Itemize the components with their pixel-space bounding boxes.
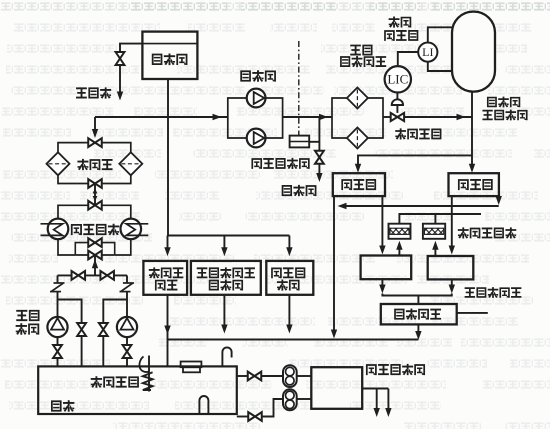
valve V7 (manifold left) bbox=[72, 271, 79, 280]
wire: filter to cooler connection, double arrows bbox=[94, 184, 96, 206]
wire: LIC stem to valve actuator dome bbox=[396, 93, 398, 100]
wire: purifier outlet drop 1 with arrow bbox=[376, 389, 378, 410]
booster pump parallel block frame bbox=[228, 98, 283, 117]
wire: cooler down to pump manifold with up arrow bbox=[94, 255, 96, 275]
label: stop tank bbox=[152, 54, 163, 65]
component: separation filter right (hatched) bbox=[423, 224, 445, 239]
heat exchanger E1 (left cooler circle) bbox=[48, 219, 69, 240]
wire: LIC to LI connection bbox=[398, 52, 418, 66]
box: oil seal left (you mifeng) bbox=[333, 173, 385, 196]
component: internal suction siphon bbox=[199, 396, 208, 414]
label: oil drain trap (paiyou bujiqi) bbox=[465, 287, 475, 298]
svg-text:LI: LI bbox=[422, 45, 433, 59]
oil cooler loop frame bbox=[58, 205, 95, 255]
wire: left oil seal to left trap with arrow bbox=[381, 196, 383, 247]
wire: LI to tank bottom tap bbox=[428, 62, 453, 71]
wire: right pump suction with valve V12 bbox=[126, 337, 128, 345]
wire: lube pump discharge manifold bbox=[58, 274, 128, 276]
label: lube oil pump (runhua youbeng), two lines bbox=[16, 310, 27, 321]
wire: dp valve to bypass drop line bbox=[309, 141, 319, 143]
actuator dome of level control valve bbox=[392, 99, 403, 105]
valve V13 (bypass to oil tank) bbox=[315, 151, 324, 158]
wire: left recirculation to tank bbox=[81, 336, 83, 366]
wire: left trap outlet down with arrow bbox=[381, 279, 383, 287]
instrument: LI level indicator circle bbox=[418, 43, 437, 62]
wire: degasser side outlet bbox=[457, 312, 488, 314]
wire: compressor bearing drain with arrow bbox=[288, 295, 290, 326]
component: heater element coil in tank bbox=[148, 356, 150, 392]
valve V9 (left recirculation) bbox=[77, 323, 86, 330]
wire: main line elbow down to filter block bbox=[94, 117, 96, 130]
label: level indication control, two lines bbox=[350, 45, 361, 56]
wire: right oil seal to oil return line (step) bbox=[498, 196, 500, 199]
wire: motor bearing drain through header into tank bbox=[167, 295, 169, 367]
box: oil seal right (you mifeng) bbox=[449, 173, 499, 196]
wire: bearing supply header from stop-tank line bbox=[168, 235, 290, 237]
box: oil drain trap left bbox=[361, 256, 412, 280]
check symbol Z1 on left pump riser bbox=[57, 275, 59, 283]
label: filter (guolvqi) bbox=[77, 159, 88, 170]
pump P5 (gear pump upper, two-lobe) bbox=[283, 365, 297, 387]
instrument: differential pressure control valve body bbox=[290, 136, 310, 148]
valve V5 (cooler bottom edge) bbox=[88, 251, 95, 260]
pump P6 (gear pump lower, two-lobe) bbox=[283, 389, 297, 410]
label: oil heater (you jiareqi) bbox=[91, 376, 102, 388]
filter element F1 (left diamond) bbox=[47, 152, 70, 175]
valve V3 (filter outlet, bottom edge) bbox=[88, 179, 95, 188]
box: gearbox bearings and gears bbox=[191, 261, 261, 295]
label: to-oil-tank (zhi you xiang) bbox=[76, 87, 87, 98]
valve V10 (right recirculation) bbox=[99, 323, 108, 330]
wire: tank outlet lower with valve V16 bbox=[237, 416, 249, 418]
box: oil drain trap right bbox=[428, 256, 474, 279]
filter loop (guolvqi) frame bbox=[58, 143, 131, 184]
label: booster pump (zengyabeng) bbox=[240, 70, 251, 81]
wire: right trap outlet down with arrow bbox=[451, 279, 453, 287]
valve V2 (filter inlet, top edge) bbox=[88, 138, 95, 147]
wire: left pump suction with valve V11 bbox=[57, 337, 59, 345]
wire: drop with arrow into gearbox box bbox=[223, 236, 225, 249]
pump P4 (booster pump bottom) bbox=[247, 129, 266, 148]
wire: gas vent header of separation filters bbox=[399, 214, 481, 224]
check symbol Z2 on right pump riser bbox=[126, 275, 128, 283]
arrow on main line before booster pumps bbox=[213, 114, 222, 120]
wire: stop tank down-line to bearing header bbox=[167, 79, 169, 236]
wire: duplex filter to level control valve bbox=[383, 116, 390, 118]
wire: drop with arrow into motor bearing box bbox=[167, 236, 169, 249]
label: to-oil-tank #2 bbox=[282, 185, 292, 196]
wire: head tank down-line to oil seals bbox=[471, 92, 473, 165]
wire: bypass drop from main line bbox=[318, 117, 320, 151]
wire: gearbox drain with arrow bbox=[223, 295, 225, 326]
filter element F4 (bottom diamond) bbox=[347, 128, 368, 149]
svg-text:LIC: LIC bbox=[387, 72, 408, 87]
wire: purifier outlet header bbox=[362, 388, 388, 390]
vessel: seal oil head tank (capsule) bbox=[452, 12, 495, 92]
wire: purifier outlet drop 2 with arrow bbox=[387, 389, 389, 410]
wire: drop with arrow into compressor bearing box bbox=[288, 236, 290, 249]
label: differential pressure control valve bbox=[251, 158, 262, 169]
wire: left oil seal drain to return header with arrow bbox=[333, 196, 335, 332]
wire: right recirculation branch bbox=[103, 300, 127, 324]
filter element F3 (top diamond) bbox=[347, 88, 368, 109]
heat exchanger E2 (right cooler circle) bbox=[121, 219, 142, 240]
component: tank vent gooseneck bbox=[222, 347, 231, 366]
box: motor bearing (diandongji zhoucheng) bbox=[143, 261, 187, 295]
label: oil purification unit bbox=[366, 364, 377, 375]
label: oil cooler (you lengqueqi) bbox=[71, 224, 82, 235]
wire: left trap vapour to left separation filter, up arrow bbox=[398, 248, 400, 256]
pump P1 (lube oil pump left) bbox=[47, 317, 67, 337]
valve V4 (cooler top edge) bbox=[88, 201, 95, 210]
vessel: oil tank (you xiang) bbox=[38, 366, 237, 414]
label: level transmitter, two lines bbox=[389, 17, 400, 28]
cooler bypass loop with valve V6 bbox=[75, 243, 114, 255]
signal line (dash-dot) to differential pressure control valve bbox=[298, 41, 300, 136]
box: compressor bearing (yasuoji zhoucheng) bbox=[266, 261, 313, 295]
wire: right separation filter vent drop bbox=[434, 214, 436, 224]
instrument: LIC controller circle bbox=[385, 66, 411, 92]
valve V14 (level control valve) bbox=[391, 113, 398, 121]
wire: drain to oil tank with arrow bbox=[119, 65, 121, 93]
wire: main line booster to duplex filter bbox=[283, 116, 332, 118]
wire: main supply line left section bbox=[95, 116, 228, 118]
filter element F2 (right diamond) bbox=[119, 152, 142, 175]
wire: gear pumps to purifier bbox=[297, 375, 312, 377]
vessel: stop tank (ting che cao) bbox=[142, 32, 197, 79]
wire: right recirculation to tank bbox=[102, 336, 104, 366]
valve V1 (stop-tank drain) bbox=[116, 52, 125, 59]
wire: oil return line to left seal drain, arrow left bbox=[344, 205, 499, 207]
wire: oil return header to tank bbox=[168, 339, 419, 341]
box: oil purification unit (you jinghua zhuangzhi) bbox=[311, 367, 362, 409]
wire: degasser bottom outlet to return header with arrow bbox=[417, 324, 419, 332]
wire: right oil seal to right trap with arrow bbox=[451, 196, 453, 247]
duplex filter block frame (seal oil filters) bbox=[332, 98, 357, 117]
wire: right trap vapour to right separation filter, up arrow bbox=[434, 248, 436, 257]
wire: branch from stop tank to drain valve bbox=[120, 44, 142, 53]
component: tank manhole flange bbox=[181, 362, 202, 368]
wire: level valve to seal tank riser with arrow bbox=[404, 116, 472, 118]
wire: tank outlet upper to transfer pump bbox=[237, 375, 248, 377]
label: oil tank bbox=[51, 400, 62, 411]
wire: left recirculation branch bbox=[58, 300, 82, 324]
label: separation filter (fenli guolvqi) bbox=[458, 227, 469, 238]
valve V15 (purifier suction upper) bbox=[248, 372, 255, 381]
label: seal oil head tank, two lines bbox=[487, 97, 497, 108]
pump P3 (booster pump top) bbox=[247, 89, 266, 108]
wire: LI to tank top tap bbox=[428, 27, 456, 42]
wire: trap outlets converge to degasser bbox=[382, 294, 451, 296]
component: separation filter left (hatched) bbox=[389, 224, 411, 239]
label: level control (yewei kongzhi) bbox=[395, 128, 406, 139]
box: degassing unit (tuoqi zhuangzhi) bbox=[381, 304, 457, 324]
valve V8 (manifold right) bbox=[100, 271, 107, 280]
wire: bypass drain arrow to oil tank bbox=[318, 164, 320, 174]
wire: seal feed branch to left oil seal bbox=[358, 155, 472, 165]
pump P2 (lube oil pump right) bbox=[117, 317, 137, 337]
